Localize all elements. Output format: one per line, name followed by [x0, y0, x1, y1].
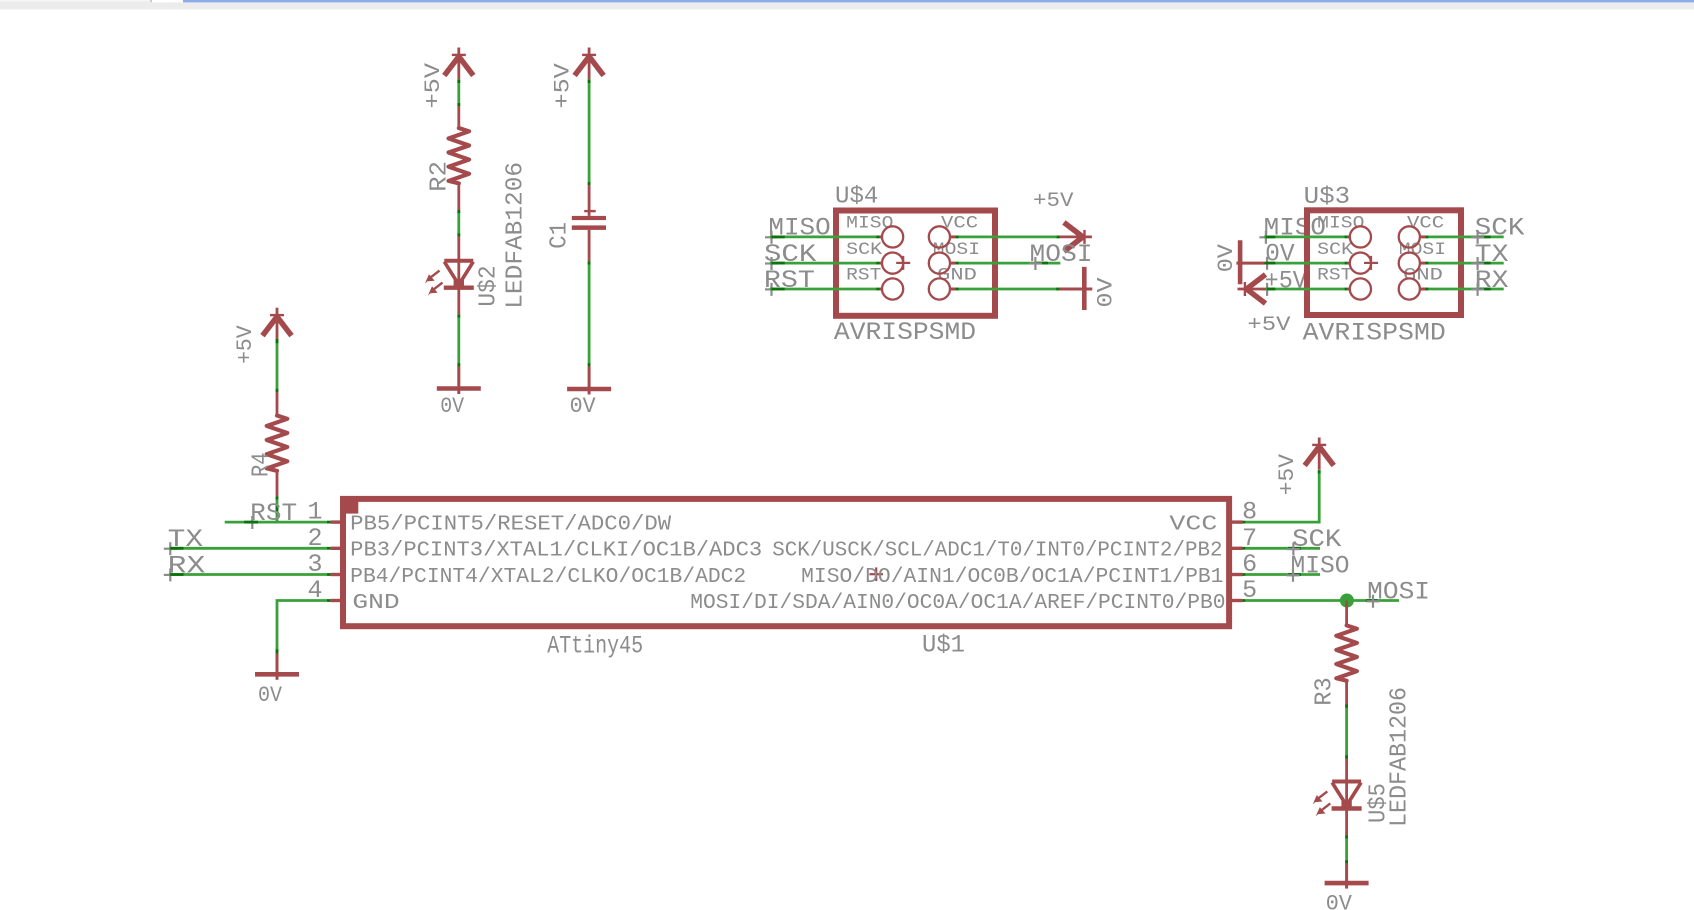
net label RX [168, 551, 206, 580]
node TX cross [164, 542, 177, 555]
svg-text:SCK: SCK [1317, 240, 1353, 260]
pin number 5 [1242, 576, 1257, 605]
resistor R2 [449, 106, 470, 210]
svg-text:+5V: +5V [1247, 314, 1290, 337]
U$4 pin name SCK [846, 240, 882, 260]
svg-text:+5V: +5V [421, 62, 446, 108]
svg-text:MOSI/DI/SDA/AIN0/OC0A/OC1A/ARE: MOSI/DI/SDA/AIN0/OC0A/OC1A/AREF/PCINT0/P… [690, 592, 1225, 615]
svg-text:VCC: VCC [1169, 514, 1217, 537]
resistor R3 [1336, 601, 1357, 705]
supply +5V (U$3) [1238, 275, 1291, 338]
svg-text:PB3/PCINT3/XTAL1/CLKI/OC1B/ADC: PB3/PCINT3/XTAL1/CLKI/OC1B/ADC3 [350, 540, 762, 563]
wires into U$4 (MISO,SCK,RST) [770, 237, 880, 289]
value AVRISPSMD (U$3) [1303, 319, 1446, 348]
net label RST [250, 499, 297, 528]
node RST cross [246, 516, 259, 529]
svg-text:SCK/USCK/SCL/ADC1/T0/INT0/PCIN: SCK/USCK/SCL/ADC1/T0/INT0/PCINT2/PB2 [772, 540, 1222, 563]
svg-text:3: 3 [307, 550, 322, 579]
pin label PB4 [350, 566, 746, 589]
svg-text:R4: R4 [249, 452, 276, 477]
U$4 pin name VCC [941, 214, 978, 234]
pin label PB1 [801, 566, 1223, 589]
node TX cross (U$3) [1471, 257, 1484, 270]
LED U$2 [425, 237, 474, 315]
node RX cross (U$3) [1471, 283, 1484, 296]
svg-text:1: 1 [307, 498, 322, 527]
svg-text:LEDFAB1206: LEDFAB1206 [1387, 687, 1414, 827]
wire net RX out U$3 [1425, 288, 1504, 291]
IC origin cross [869, 567, 883, 581]
svg-text:R3: R3 [1312, 677, 1339, 705]
net label RX (U$3) [1475, 266, 1509, 295]
svg-text:R2: R2 [426, 161, 453, 192]
svg-text:+5V: +5V [1265, 266, 1307, 295]
label R3 [1312, 677, 1339, 705]
browser top bar [0, 0, 1694, 10]
pin number 1 [307, 498, 322, 527]
name U$2 [476, 265, 503, 306]
svg-text:U$3: U$3 [1304, 184, 1351, 211]
svg-text:MISO/DO/AIN1/OC0B/OC1A/PCINT1/: MISO/DO/AIN1/OC0B/OC1A/PCINT1/PB1 [801, 566, 1223, 589]
svg-text:GND: GND [1403, 266, 1443, 286]
net label TX (U$3) [1475, 240, 1509, 269]
svg-text:PB5/PCINT5/RESET/ADC0/DW: PB5/PCINT5/RESET/ADC0/DW [350, 514, 671, 537]
net label SCK (pin7) [1292, 525, 1341, 554]
node SCK cross (U$3) [1471, 231, 1484, 244]
value LEDFAB1206 (U$5) [1387, 687, 1414, 827]
net label SCK (U$3) [1475, 214, 1525, 243]
node RX cross [164, 568, 177, 581]
ground 0V (branch A) [255, 654, 299, 708]
svg-text:VCC: VCC [1407, 214, 1444, 234]
U$4 pin name MOSI [933, 240, 980, 260]
pin number 4 [307, 576, 322, 605]
node +5V cross (U$3) [1261, 283, 1274, 296]
U$3 pin name MOSI [1399, 240, 1446, 260]
net label TX [168, 525, 203, 554]
wire C1 to ground [588, 261, 591, 366]
node SCK cross [1287, 543, 1300, 556]
pin 1 stub [331, 520, 342, 523]
U$3 origin cross [1364, 256, 1378, 270]
svg-text:U$2: U$2 [476, 265, 503, 306]
name U$4 [835, 184, 878, 211]
ground 0V (U$4) [1059, 267, 1118, 310]
wire net SCK out U$3 [1425, 235, 1504, 238]
svg-text:0V: 0V [570, 394, 597, 419]
pin 4 stub [331, 599, 342, 602]
wire net MISO pin6 [1246, 573, 1320, 576]
label R2 [426, 161, 453, 192]
svg-text:+5V: +5V [233, 325, 258, 364]
node MISO cross (U$4) [765, 231, 778, 244]
pin 8 stub [1232, 520, 1246, 523]
pin 6 stub [1232, 573, 1246, 576]
IC U$1 box [340, 496, 1229, 626]
svg-text:AVRISPSMD: AVRISPSMD [1303, 319, 1446, 348]
connector U$4 box [836, 211, 995, 316]
wire R2 to LED U$2 [457, 210, 460, 237]
ground 0V (U$3) [1214, 240, 1265, 284]
wire R3 to LED U$5 [1345, 705, 1348, 759]
svg-text:MISO: MISO [1317, 214, 1364, 234]
junction MOSI [1340, 594, 1354, 608]
wire pin4 to ground [277, 601, 331, 654]
label R4 [249, 452, 276, 477]
wire net RST [225, 521, 331, 524]
net label MISO (pin6) [1291, 551, 1350, 580]
node MOSI cross [1367, 595, 1380, 608]
svg-text:GND: GND [352, 592, 399, 615]
wire net 0V into U$3 [1265, 262, 1348, 265]
svg-text:AVRISPSMD: AVRISPSMD [834, 318, 976, 347]
wire LED U$2 to ground [457, 314, 460, 366]
U$3 pads [1348, 226, 1426, 299]
net label RST (U$4) [764, 266, 815, 295]
pin number 7 [1242, 524, 1257, 553]
svg-text:RST: RST [1317, 266, 1352, 286]
svg-text:0V: 0V [1214, 243, 1239, 272]
value ATtiny45 [547, 631, 643, 660]
capacitor C1 [572, 185, 606, 261]
U$3 pin name MISO [1317, 214, 1364, 234]
node SCK cross (U$4) [765, 257, 778, 270]
svg-text:+5V: +5V [1033, 190, 1074, 213]
pin label PB2 [772, 540, 1222, 563]
svg-text:0V: 0V [440, 394, 465, 419]
supply +5V (pin 8) [1275, 438, 1334, 496]
pin 2 stub [331, 547, 342, 550]
svg-text:4: 4 [307, 576, 322, 605]
svg-text:2: 2 [307, 524, 322, 553]
svg-text:PB4/PCINT4/XTAL2/CLKO/OC1B/ADC: PB4/PCINT4/XTAL2/CLKO/OC1B/ADC2 [350, 566, 746, 589]
U$3 pin name RST [1317, 266, 1352, 286]
supply +5V (U$4) [1033, 190, 1092, 252]
supply +5V (branch C1) [550, 48, 603, 109]
U$3 pin name GND [1403, 266, 1443, 286]
net label MOSI (pin5) [1367, 577, 1430, 606]
name U$5 [1366, 783, 1393, 823]
value LEDFAB1206 (U$2) [503, 162, 530, 309]
svg-text:C1: C1 [547, 222, 574, 249]
wire net VCC pin8 [1246, 470, 1320, 522]
pin 7 stub [1232, 547, 1246, 550]
pin 3 stub [331, 573, 342, 576]
pin label PB0 [690, 592, 1225, 615]
ground 0V (branch R3) [1325, 863, 1369, 910]
wire U$4 GND [955, 288, 1059, 291]
wire U$4 MOSI [955, 262, 1060, 265]
wire net MISO into U$3 [1264, 235, 1348, 238]
U$4 pin name GND [937, 266, 977, 286]
svg-text:MOSI: MOSI [1399, 240, 1446, 260]
wire net RX [169, 573, 330, 576]
net label 0V (U$3) [1265, 239, 1295, 268]
wire R4 to RST net [276, 496, 279, 522]
wire U$4 VCC to +5V [955, 235, 1060, 238]
svg-text:SCK: SCK [846, 240, 882, 260]
pin label VCC [1169, 514, 1217, 537]
pin label GND [352, 592, 399, 615]
node MISO cross (U$3) [1259, 231, 1272, 244]
svg-text:MOSI: MOSI [933, 240, 980, 260]
svg-text:GND: GND [937, 266, 977, 286]
U$3 pin name VCC [1407, 214, 1444, 234]
pin number 2 [307, 524, 322, 553]
wire net +5V into U$3 [1266, 288, 1348, 291]
wire net TX out U$3 [1425, 262, 1504, 265]
resistor R4 [267, 392, 288, 496]
wire LED U$5 to ground [1345, 835, 1348, 863]
name U$1 [922, 631, 965, 660]
node MISO cross [1287, 569, 1300, 582]
wire net MOSI pin5 [1246, 599, 1399, 602]
wire +5V to R2 [457, 79, 460, 106]
svg-text:ATtiny45: ATtiny45 [547, 631, 643, 660]
name U$3 [1304, 184, 1351, 211]
ground 0V (branch C1) [567, 366, 611, 419]
svg-text:0V: 0V [1093, 277, 1118, 308]
pin label PB5 [350, 514, 671, 537]
supply +5V (branch R2) [421, 48, 473, 109]
net label MISO (U$4) [768, 214, 830, 243]
U$4 pin name RST [846, 266, 881, 286]
pin label PB3 [350, 540, 762, 563]
label C1 [547, 222, 574, 249]
pin 5 stub [1232, 599, 1246, 602]
svg-text:LEDFAB1206: LEDFAB1206 [503, 162, 530, 309]
node RST cross (U$4) [765, 283, 778, 296]
U$4 pads [880, 226, 956, 299]
wire net SCK pin7 [1246, 547, 1320, 550]
supply +5V (branch R4) [233, 308, 292, 364]
node 0V cross (U$3) [1261, 257, 1274, 270]
wire net +5V to R4 [276, 339, 279, 393]
svg-text:0V: 0V [1326, 892, 1353, 910]
U$4 pin name MISO [846, 214, 893, 234]
value AVRISPSMD (U$4) [834, 318, 976, 347]
pin number 8 [1242, 498, 1257, 527]
node MOSI cross (U$4) [1029, 257, 1042, 270]
net label +5V (U$3) [1265, 266, 1307, 295]
U$3 pin name SCK [1317, 240, 1353, 260]
connector U$3 box [1307, 210, 1461, 315]
LED U$5 [1313, 759, 1362, 836]
svg-text:MISO: MISO [846, 214, 893, 234]
svg-text:+5V: +5V [1275, 453, 1300, 495]
net label MOSI (U$4) [1030, 240, 1093, 269]
svg-text:U$1: U$1 [922, 631, 965, 660]
wire +5V to C1 [588, 79, 591, 185]
pin number 3 [307, 550, 322, 579]
ground 0V (branch R2) [437, 366, 481, 419]
wire net TX [169, 547, 330, 550]
svg-text:RST: RST [846, 266, 881, 286]
pin number 6 [1242, 550, 1257, 579]
svg-text:0V: 0V [258, 683, 283, 708]
U$4 origin cross [896, 256, 910, 270]
svg-text:U$4: U$4 [835, 184, 878, 211]
net label MISO (U$3) [1264, 214, 1326, 243]
svg-text:+5V: +5V [550, 62, 575, 108]
net label SCK (U$4) [764, 240, 817, 269]
